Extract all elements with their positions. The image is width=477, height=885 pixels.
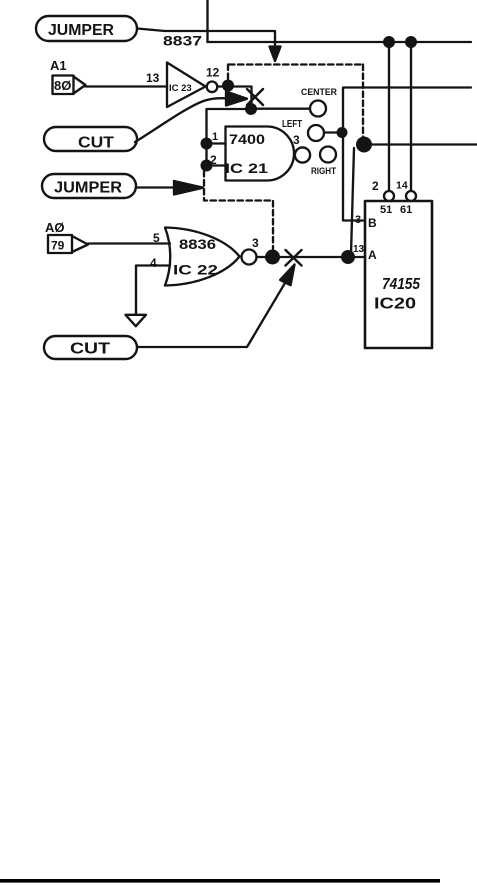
svg-text:LEFT: LEFT: [282, 119, 302, 130]
wire from net 8837 down to IC20 pin 2: [388, 42, 390, 191]
svg-text:IC 23: IC 23: [169, 83, 192, 94]
NAND gate IC21 7400: [225, 127, 294, 181]
arrow from JUMPER to dashed route: [136, 181, 203, 195]
svg-text:A: A: [368, 248, 377, 262]
wire A0 to IC22 pin 5: [88, 242, 170, 244]
pin 2 pad circle of IC20: [384, 191, 394, 201]
IC21 output pad circle pin 3: [295, 147, 310, 162]
svg-text:7400: 7400: [229, 132, 265, 147]
inverter IC23: [167, 63, 206, 108]
label pin 13: [146, 71, 160, 85]
svg-text:8837: 8837: [163, 34, 202, 49]
callout JUMPER (middle): [42, 174, 136, 198]
svg-text:13: 13: [146, 71, 160, 85]
pad LEFT: [282, 119, 324, 141]
dashed box top (jumper route): [229, 63, 363, 65]
callout CUT (lower): [44, 336, 137, 359]
svg-text:JUMPER: JUMPER: [54, 180, 122, 197]
svg-text:JUMPER: JUMPER: [48, 22, 114, 39]
IC22 output bubble pin 3: [242, 250, 257, 265]
label pin 1: [212, 131, 218, 143]
svg-text:8836: 8836: [179, 236, 216, 252]
wire net 8837 horizontal: [137, 29, 471, 43]
svg-text:5: 5: [153, 231, 160, 245]
label pin 2: [372, 179, 379, 193]
dashed left drop to inverter output node: [227, 65, 229, 81]
wire IC22 pin 4 to ground: [136, 266, 170, 315]
wire inverter output to cut point and node: [217, 87, 251, 110]
flag A0 source 79: [45, 220, 88, 253]
wire B-select: corner to right edge: [343, 88, 471, 221]
wire node left and down to IC21 pins 1,2: [207, 109, 252, 166]
svg-text:12: 12: [206, 66, 220, 80]
cut mark X (upper): [247, 89, 263, 105]
pad CENTER: [301, 87, 337, 117]
wire branch into dashed box with arrow: [208, 31, 281, 61]
svg-text:1: 1: [212, 131, 218, 143]
svg-text:51: 51: [380, 204, 392, 216]
svg-text:A1: A1: [50, 58, 67, 73]
svg-text:61: 61: [400, 204, 412, 216]
label pin 5: [153, 231, 160, 245]
IC20 74155 demultiplexer: [353, 201, 432, 348]
svg-text:B: B: [368, 216, 377, 230]
node junction dot on net 8837 (left): [383, 36, 395, 48]
wire A1 to inverter input pin 13: [86, 85, 168, 87]
wire node to CENTER pad: [251, 108, 310, 110]
inverter IC23 output bubble: [207, 82, 218, 93]
wire stub to IC21 pin 1: [207, 142, 226, 144]
svg-text:4: 4: [150, 256, 157, 270]
svg-text:IC 22: IC 22: [173, 263, 218, 278]
wire LEFT pad to B-select line: [324, 131, 342, 133]
label pin 2: [210, 153, 217, 167]
label pin 3 (IC21): [293, 133, 300, 147]
label pin 14: [396, 180, 408, 192]
svg-text:3: 3: [355, 214, 361, 226]
svg-text:13: 13: [353, 244, 365, 255]
callout JUMPER (top): [36, 16, 137, 41]
wire big node down to A-select net: [351, 148, 354, 254]
wire A-select: IC22 output to IC20 pin A: [257, 256, 366, 258]
svg-text:2: 2: [372, 179, 379, 193]
svg-text:AØ: AØ: [45, 220, 65, 235]
ground symbol: [126, 315, 147, 326]
svg-text:74155: 74155: [382, 276, 421, 293]
wire vertical from top edge: [206, 0, 208, 42]
node at inverter output (dashed route joins): [222, 80, 234, 92]
node junction dot on net 8837 (right): [405, 36, 417, 48]
pad RIGHT: [311, 147, 336, 177]
dashed right drop to big node: [362, 65, 364, 138]
arrow from CUT to lower cut mark: [137, 265, 295, 348]
svg-text:CUT: CUT: [70, 341, 111, 358]
svg-text:IC 21: IC 21: [225, 161, 269, 176]
label pin 4: [150, 256, 157, 270]
wire from net 8837 down to IC20 pin 14: [410, 42, 412, 191]
svg-text:79: 79: [51, 239, 65, 253]
svg-text:CENTER: CENTER: [301, 87, 337, 98]
svg-text:3: 3: [293, 133, 300, 147]
NOR gate IC22 8836: [165, 228, 240, 286]
label 8837: [163, 34, 202, 49]
node junction below cut (to CENTER / IC21): [245, 103, 257, 115]
node IC21 pin 1: [201, 138, 213, 150]
label pin 12: [206, 66, 220, 80]
flag A1 source 80: [50, 58, 86, 94]
node at IC22 output (dashed route joins): [265, 250, 280, 265]
node IC21 pin 2: [201, 160, 213, 172]
pin 14 pad circle of IC20: [406, 191, 416, 201]
wire stub to IC21 pin 2: [207, 164, 226, 166]
wire big node to right edge: [364, 143, 477, 145]
arrow from CUT to upper cut mark: [135, 92, 247, 143]
svg-text:3: 3: [252, 236, 259, 250]
svg-text:8Ø: 8Ø: [54, 78, 71, 93]
dashed route IC21 pin2 to IC22 output node: [204, 171, 273, 249]
bottom rule bar: [0, 879, 440, 883]
big node (strobe net): [356, 137, 372, 153]
label pin 3 (IC22): [252, 236, 259, 250]
node on B-select line at LEFT: [337, 127, 348, 138]
callout CUT (upper): [44, 127, 137, 152]
cut mark X (lower): [286, 250, 302, 266]
svg-text:14: 14: [396, 180, 408, 192]
svg-text:2: 2: [210, 153, 217, 167]
svg-text:IC20: IC20: [374, 296, 416, 313]
svg-text:RIGHT: RIGHT: [311, 166, 336, 176]
svg-text:CUT: CUT: [78, 135, 115, 152]
node on A-select at vertical join: [341, 250, 355, 264]
